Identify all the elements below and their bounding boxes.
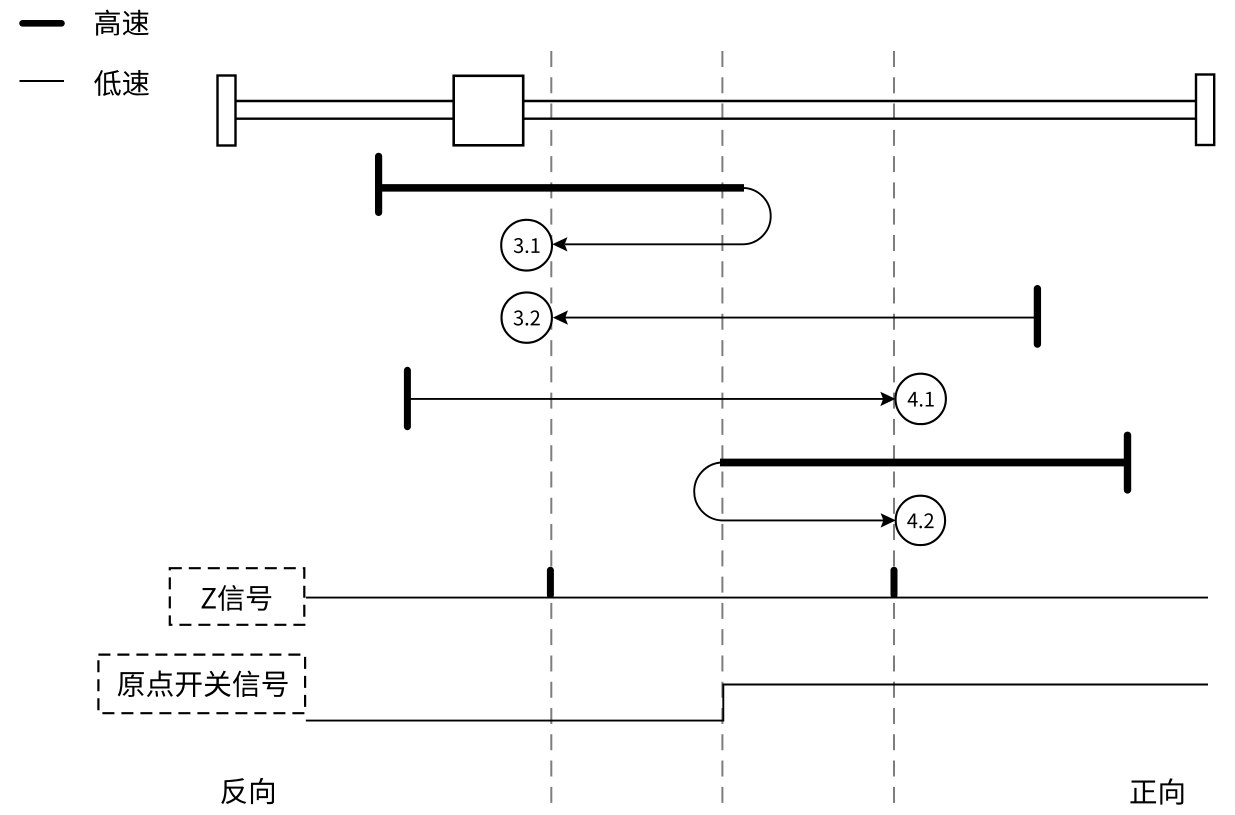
label 4.2 bbox=[907, 513, 933, 528]
label 4.1 bbox=[908, 392, 934, 407]
arrowhead into 4.1 bbox=[880, 392, 895, 406]
legend thin line (low speed) bbox=[20, 80, 65, 82]
trace 3 high-speed line bbox=[379, 184, 744, 192]
rail bottom line bbox=[235, 117, 1196, 119]
direction label 正向 bbox=[1130, 778, 1183, 804]
trace 4.1 start stop-bar bbox=[404, 370, 411, 426]
Z signal baseline bbox=[306, 597, 1208, 599]
arrowhead into 3.2 bbox=[553, 310, 568, 324]
circle 4.2 bbox=[896, 496, 945, 545]
rail right end stop bbox=[1196, 75, 1214, 146]
dashed reference line 2 (home switch edge) bbox=[721, 51, 723, 803]
trace 3.1 u-turn curve and return line bbox=[565, 188, 771, 244]
arrowhead into 3.1 bbox=[552, 237, 567, 251]
trace 3.2 start stop-bar bbox=[1034, 289, 1041, 345]
dashed reference line 3 (Z pulse / 4.x stop position) bbox=[893, 51, 895, 803]
rail top line bbox=[235, 100, 1196, 102]
direction label 反向 bbox=[221, 778, 274, 804]
circle 3.2 bbox=[502, 292, 552, 342]
trace 4 high-speed line bbox=[720, 459, 1126, 467]
Z signal label Z信号 bbox=[202, 585, 272, 611]
arrowhead into 4.2 bbox=[881, 513, 896, 527]
label 3.1 bbox=[514, 238, 540, 253]
Z pulse tick 2 bbox=[891, 570, 898, 595]
home switch label 原点开关信号 bbox=[118, 670, 288, 697]
dashed reference line 1 (Z pulse / 3.1 stop position) bbox=[550, 51, 552, 803]
legend label 高速 bbox=[95, 10, 149, 36]
carriage block bbox=[454, 76, 524, 146]
circle 3.1 bbox=[501, 220, 552, 271]
trace 3 start stop-bar bbox=[375, 156, 382, 212]
label 3.2 bbox=[514, 310, 540, 325]
home switch dashed box bbox=[98, 655, 305, 714]
trace 4 end stop-bar bbox=[1124, 435, 1131, 490]
home switch step waveform bbox=[306, 685, 1208, 721]
circle 4.1 bbox=[896, 374, 946, 424]
Z pulse tick 1 bbox=[547, 570, 554, 595]
legend thick line (high speed) bbox=[23, 20, 62, 27]
trace 4.2 u-turn curve and forward line bbox=[694, 463, 884, 521]
Z signal dashed box bbox=[170, 568, 304, 625]
rail left end stop bbox=[218, 76, 236, 146]
legend label 低速 bbox=[94, 70, 149, 96]
trace 4.1 line bbox=[407, 398, 884, 400]
trace 3.2 line bbox=[565, 317, 1037, 319]
